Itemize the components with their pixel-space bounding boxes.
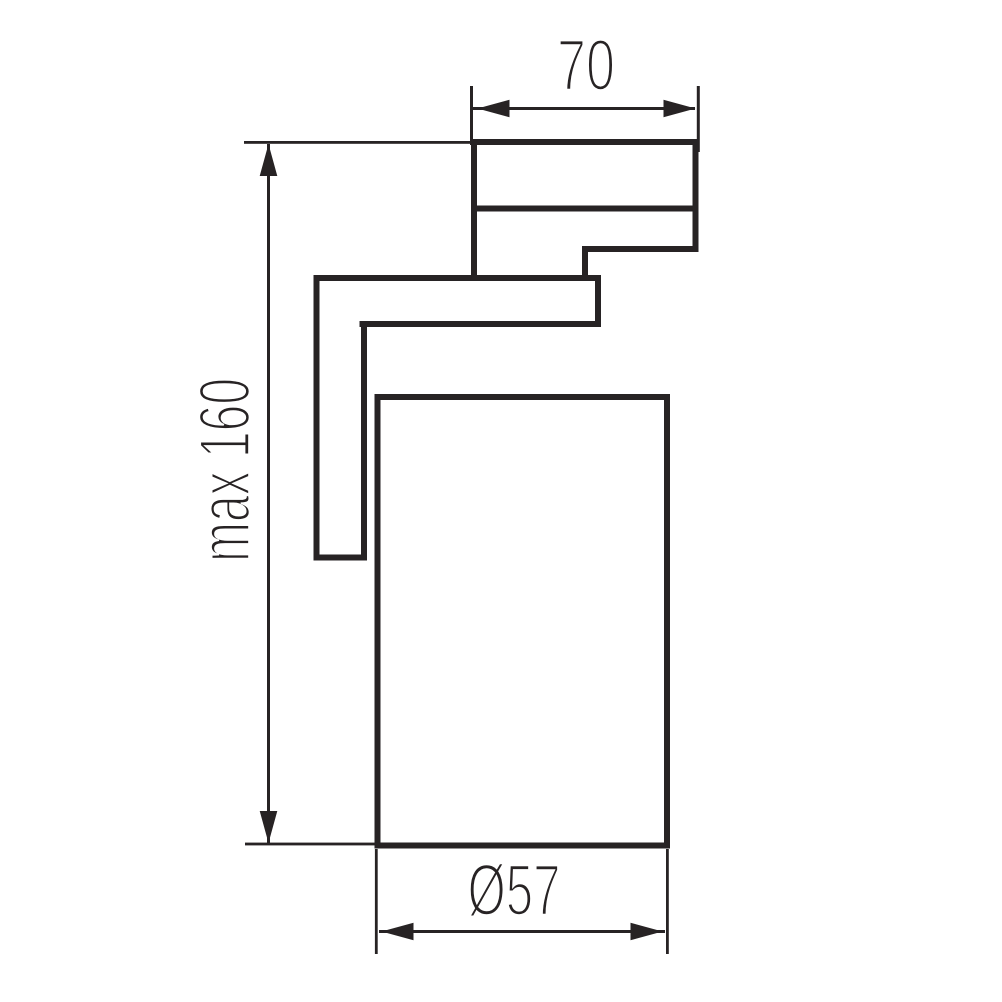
arm bottom cap: [314, 555, 368, 561]
dimension line max160: [267, 144, 270, 843]
arm top edge: [314, 275, 602, 281]
arm right edge: [595, 275, 601, 327]
arrowhead max160 down: [260, 811, 278, 843]
track adapter neck right edge: [582, 246, 588, 281]
dimension line d57: [379, 930, 665, 933]
svg-text:Ø57: Ø57: [468, 851, 561, 931]
arrowhead 70 right: [664, 100, 696, 118]
arm inner left edge: [361, 321, 367, 555]
arrowhead max160 up: [260, 144, 278, 176]
svg-text:max 160: max 160: [185, 378, 265, 562]
track adapter top edge: [471, 139, 699, 145]
track adapter step bottom: [582, 246, 699, 252]
extension line top right: [697, 86, 700, 152]
extension line top left: [470, 86, 473, 145]
lamp body rectangle: [378, 397, 668, 846]
arrowhead 70 left: [478, 100, 510, 118]
extension line max160 top: [244, 141, 471, 144]
svg-text:70: 70: [557, 26, 615, 106]
track adapter left edge: [471, 139, 477, 281]
dimension line 70: [473, 107, 695, 110]
track adapter mid line: [471, 206, 699, 212]
arrowhead d57 right: [631, 923, 663, 941]
extension line d57 left: [375, 849, 378, 954]
track adapter right edge: [693, 139, 699, 252]
arm step bottom edge: [360, 321, 602, 327]
arrowhead d57 left: [382, 923, 414, 941]
arm outer left edge: [314, 275, 320, 561]
extension line max160 bottom: [245, 843, 378, 846]
extension line d57 right: [666, 849, 669, 954]
